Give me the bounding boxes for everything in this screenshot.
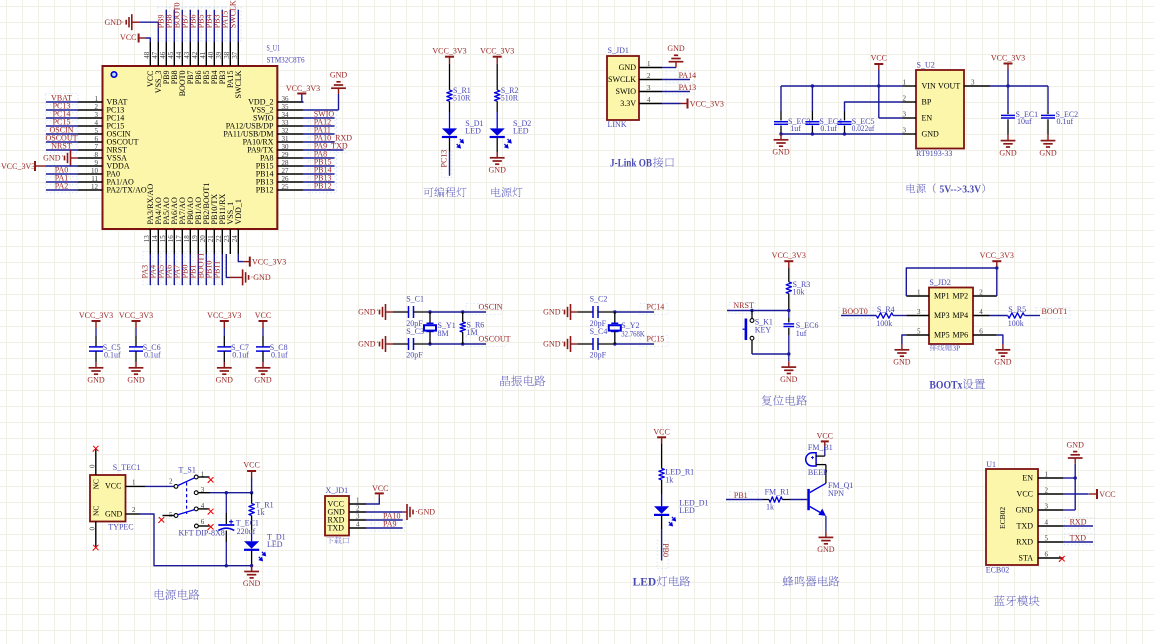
svg-text:·: · [561, 306, 564, 315]
no-connect X at T_S1 pin1 [208, 477, 214, 483]
wire MP1-MP2 loop to VCC_3V3 [906, 268, 997, 296]
wire net PC13 (pin 2) [46, 109, 78, 111]
power flag VCC above buzzer [817, 432, 833, 447]
power flag VCC_3V3 at S_JD1 pin4 [681, 99, 724, 109]
S_JD1 pin numbers [647, 60, 651, 104]
connector S_TEC1 value TYPEC [108, 523, 133, 532]
svg-text:1: 1 [132, 479, 136, 487]
junction S_R6 bottom [461, 342, 464, 345]
wire GND to S_C3 [393, 343, 408, 345]
wire S_R3 to NRST node [788, 294, 790, 311]
ground at S_U1 pin 8 VSSA [43, 150, 78, 166]
S_TEC1 pin1 stub [126, 479, 146, 487]
S_U1 right pin names [223, 97, 274, 194]
net label PB11 [212, 261, 221, 279]
S_TEC1 shell pin top [88, 450, 96, 476]
wire bottom node to GND [788, 354, 790, 361]
power flag VCC above T_R1 [243, 461, 259, 478]
capacitor S_C6 0.1uf [129, 328, 161, 362]
svg-text:VCC_3V3: VCC_3V3 [252, 257, 286, 266]
svg-text:S_C3: S_C3 [406, 327, 424, 336]
S_U1 left pin stubs [78, 102, 103, 190]
power flag VCC_3V3 above S_C6 [119, 311, 153, 328]
wire S_K1 to bottom node [752, 340, 789, 354]
wire T_S1 pin3 to VCC node [210, 492, 252, 494]
svg-text:VCC: VCC [372, 484, 388, 493]
wire net PA4 (pin 14) [157, 254, 159, 285]
svg-text:PB0: PB0 [661, 543, 670, 557]
net label PA10 [383, 511, 401, 520]
svg-text:S_JD2: S_JD2 [929, 278, 950, 287]
junction bottom rail / T_EC1 [225, 564, 228, 567]
wire net PB0 (pin 18) [189, 254, 191, 285]
svg-text:·: · [561, 338, 564, 347]
ground below MP5 [893, 344, 911, 367]
svg-text:LED: LED [513, 127, 529, 136]
svg-text:MP1: MP1 [934, 292, 950, 301]
svg-text:VCC: VCC [871, 54, 887, 63]
ground right of X_JD1 pin2 [403, 504, 436, 520]
svg-text:GND: GND [893, 358, 911, 367]
wire S_U1 pin 24 VDD_1 to VCC_3V3 [238, 254, 243, 262]
svg-text:·GND: ·GND [251, 273, 271, 282]
capacitor S_C7 0.1uf [217, 328, 249, 362]
net label PC14 [647, 303, 665, 312]
svg-text:S_C4: S_C4 [590, 327, 608, 336]
wire VCC_3V3 to S_R2 [496, 64, 498, 90]
svg-text:RXD: RXD [1016, 537, 1033, 546]
net label PA5 [156, 265, 165, 279]
net label BOOT0 [173, 3, 182, 29]
junction bottom node [787, 352, 790, 355]
svg-text:VCC: VCC [1017, 489, 1033, 498]
switch T_S1 pin6 [195, 518, 210, 528]
wire net PB11 (pin 22) [221, 254, 223, 285]
wire net PC15 (pin 4) [46, 125, 78, 127]
net label PA11 [314, 125, 331, 134]
wire net PA12 (pin 33) [303, 125, 334, 127]
svg-text:FM_R1: FM_R1 [765, 487, 790, 496]
svg-text:VCC: VCC [653, 427, 669, 436]
LED S_D2 [490, 119, 532, 149]
svg-text:·: · [376, 338, 379, 347]
ground below S_D2 [489, 152, 507, 175]
junction VIN/VCC [877, 84, 880, 87]
wire MP5 to GND [902, 335, 906, 344]
svg-text:2: 2 [132, 506, 136, 514]
wire net TXD [1063, 541, 1093, 543]
resistor S_R1 510R [447, 86, 471, 103]
switch T_S1 pole B (pins 5-4) [163, 502, 210, 519]
svg-text:VCC: VCC [255, 311, 271, 320]
net label PA14 [679, 71, 697, 80]
wire EN to VIN [879, 86, 903, 118]
ground at S_U1 pin 47 VSS_3 [104, 14, 139, 30]
module U1 designator [986, 460, 996, 469]
ground below S_EC1 [999, 135, 1017, 158]
svg-text:RT9193-33: RT9193-33 [916, 149, 952, 158]
capacitor S_C4 20pF [590, 327, 608, 360]
svg-text:GND: GND [994, 358, 1012, 367]
svg-text:0.1uf: 0.1uf [104, 350, 121, 359]
svg-text:EN: EN [922, 114, 933, 123]
svg-text:T_S1: T_S1 [179, 466, 196, 475]
svg-text:GND: GND [1016, 505, 1034, 514]
junction EN/GND net [1074, 476, 1077, 479]
connector S_JD1 body [607, 56, 639, 120]
junction VCC node [250, 491, 253, 494]
S_U2 pin names [922, 82, 961, 139]
ground above U1 [1067, 440, 1085, 464]
power flag VCC_3V3 above S_R3 [772, 251, 806, 268]
capacitor S_EC2 0.1uf [1041, 86, 1078, 135]
svg-text:VCC_3V3: VCC_3V3 [991, 53, 1025, 62]
wire FM_R1 to base [790, 499, 807, 501]
svg-text:GND: GND [489, 166, 507, 175]
svg-text:MP5: MP5 [934, 331, 950, 340]
wire to GND [251, 566, 253, 571]
wire net NRST (pin 7) [46, 149, 78, 151]
wire net PA10 [366, 519, 403, 521]
svg-text:S_R5: S_R5 [1008, 305, 1026, 314]
wire net BOOT0 (pin 44) [181, 10, 183, 42]
capacitor S_C8 0.1uf [256, 328, 288, 362]
wire VIN rail [781, 86, 903, 111]
net label NRST [51, 141, 72, 150]
net label BOOT1 [1042, 307, 1068, 316]
svg-text:PB1: PB1 [734, 491, 748, 500]
wire GND to S_C2 [578, 311, 593, 313]
net label PA3 [140, 265, 149, 279]
svg-text:ECB02: ECB02 [986, 566, 1010, 575]
svg-text:2: 2 [169, 478, 173, 486]
svg-text:VCC_3V3: VCC_3V3 [119, 311, 153, 320]
net label PA0 [55, 165, 69, 174]
junction S_R6 top [461, 310, 464, 313]
IC S_U1 STM32C8T6 body [103, 66, 278, 229]
ground below S_EC2 [1039, 135, 1057, 158]
junction bottom rail / T_D1 [250, 564, 253, 567]
wire net PA1 (pin 11) [46, 181, 78, 183]
svg-text:GND: GND [817, 545, 835, 554]
X_JD1 pin stubs [349, 504, 366, 528]
net label PA13 [679, 83, 697, 92]
wire VCC_3V3 to S_R3 [788, 268, 790, 282]
svg-text:SWIO: SWIO [616, 87, 637, 96]
capacitor S_EC6 1uf [784, 311, 819, 355]
wire net RXD [1063, 525, 1093, 527]
wire X_JD1 pin1 to VCC [366, 498, 379, 504]
title J-Link OB接口 [610, 157, 674, 169]
svg-text:GND: GND [780, 375, 798, 384]
ground left of S_C2 [543, 304, 578, 320]
net label OSCIN [49, 125, 73, 134]
net label PA9 [383, 519, 397, 528]
IC S_U2 value RT9193-33 [916, 149, 952, 158]
net label PA15 [221, 11, 230, 29]
svg-text:PB11: PB11 [212, 261, 221, 279]
svg-text:6: 6 [201, 518, 205, 526]
net label PB3 [213, 15, 222, 29]
svg-text:KFT DIP-8X8: KFT DIP-8X8 [179, 528, 225, 537]
svg-text:PA2: PA2 [55, 181, 69, 190]
net label PC14 [53, 109, 71, 118]
net label PA1 [55, 173, 69, 182]
net label PC13 [53, 101, 71, 110]
svg-text:VCC: VCC [120, 33, 136, 42]
wire net PA15 (pin 38) [229, 10, 231, 42]
LED S_D1 [442, 119, 484, 149]
ground below S_C8 [254, 362, 272, 385]
wire net PB5 (pin 41) [205, 10, 207, 42]
wire net OSCIN (pin 5) [46, 133, 78, 135]
header S_JD2 designator [929, 278, 950, 287]
power flag VCC_3V3 at S_U1 pin 9 VDDA [1, 161, 78, 171]
connector X_JD1 value 下载口 [327, 537, 349, 544]
wire net PB12 (pin 25) [303, 189, 334, 191]
svg-text:VCC: VCC [1099, 490, 1115, 499]
svg-text:0.1uf: 0.1uf [144, 350, 161, 359]
svg-text:MP2: MP2 [953, 292, 969, 301]
LED LED_D1 [654, 499, 709, 527]
wire net PB8 (pin 45) [173, 10, 175, 42]
svg-text:BEEP: BEEP [808, 468, 828, 477]
S_U1 left pin names [107, 97, 147, 194]
power flag VCC above LED_R1 [653, 427, 669, 443]
buzzer FM_B1 BEEP [806, 443, 833, 477]
wire net PB13 (pin 26) [303, 181, 334, 183]
power flag VCC_3V3 above S_C7 [207, 311, 241, 328]
svg-text:STA: STA [1019, 553, 1034, 562]
net label PB9 [157, 15, 166, 29]
junction S_Y1 top [428, 310, 431, 313]
svg-text:LED: LED [465, 127, 481, 136]
svg-text:VCC_3V3: VCC_3V3 [207, 311, 241, 320]
net label VBAT [51, 93, 72, 102]
svg-text:TXD: TXD [328, 523, 345, 532]
wire net PC14 (pin 3) [46, 117, 78, 119]
wire net PB14 (pin 27) [303, 173, 334, 175]
wire net SWIO (pin 34) [303, 117, 334, 119]
switch T_S1 designator [179, 466, 196, 475]
power flag VCC_3V3 at S_U1 pin 24 [243, 257, 286, 267]
wire net PA5 (pin 15) [165, 254, 167, 285]
svg-text:PB12: PB12 [256, 185, 274, 194]
wire S_C3 to OSCOUT rail [414, 343, 486, 345]
wire emitter to GND [825, 516, 827, 532]
svg-text:VCC_3V3: VCC_3V3 [480, 47, 514, 56]
svg-text:LED: LED [633, 577, 657, 589]
IC S_U1 designator [267, 44, 305, 65]
svg-text:1k: 1k [665, 475, 673, 484]
title 蓝牙模块 [994, 595, 1039, 606]
wire net PA7 (pin 17) [181, 254, 183, 285]
no-connect X at U1 STA [1059, 556, 1065, 562]
ground below S_C6 [127, 362, 145, 385]
svg-text:TXD: TXD [1017, 521, 1034, 530]
wire net PA14 [662, 79, 690, 81]
svg-text:OSCIN: OSCIN [479, 303, 503, 312]
svg-text:TYPEC: TYPEC [108, 523, 133, 532]
wire net NRST [727, 310, 789, 312]
title 可编程灯 [424, 187, 467, 197]
net label PB7 [181, 15, 190, 29]
header S_JD2 body [929, 288, 973, 345]
net label PB10 [204, 261, 213, 279]
net label SWCLK [229, 0, 238, 28]
junction GND/S_EC5 [843, 132, 846, 135]
net label PB1 [734, 491, 748, 500]
net label PB8 [165, 15, 174, 29]
module U1 value ECB02 [986, 566, 1010, 575]
svg-text:BOOT1: BOOT1 [1042, 307, 1068, 316]
LED T_D1 [244, 532, 286, 561]
svg-text:T_EC1: T_EC1 [236, 518, 259, 527]
net label RXD [1070, 517, 1087, 526]
switch T_S1 value KFT DIP-8X8 [179, 528, 225, 537]
net label highlight boxes [46, 7, 1095, 569]
svg-text:S_TEC1: S_TEC1 [113, 463, 141, 472]
svg-text:LED: LED [267, 540, 283, 549]
svg-text:GND: GND [104, 18, 122, 27]
svg-text:GND: GND [1039, 148, 1057, 157]
svg-text:·: · [376, 306, 379, 315]
net label PB13 [314, 173, 332, 182]
power flag VCC_3V3 above S_R1 [432, 47, 466, 64]
svg-text:0.1uf: 0.1uf [1057, 117, 1074, 126]
svg-text:VCC: VCC [243, 461, 259, 470]
svg-text:PA2/TX/AO: PA2/TX/AO [107, 185, 147, 194]
capacitor S_EC3 1uf [774, 111, 811, 134]
wire net PA0 (pin 10) [46, 173, 78, 175]
wire S_R2 to S_D2 [496, 101, 498, 128]
svg-text:8M: 8M [438, 329, 449, 338]
svg-text:GND: GND [254, 376, 272, 385]
net label PC13 [440, 150, 449, 168]
power flag VCC_3V3 above S_R2 [480, 47, 514, 64]
svg-text:LED: LED [679, 506, 695, 515]
svg-text:S_U1: S_U1 [267, 44, 281, 53]
net label PB6 [189, 15, 198, 29]
title 电源灯 [491, 187, 522, 197]
net label PC15 [647, 335, 665, 344]
svg-text:GND: GND [922, 130, 940, 139]
svg-text:VCC_3V3: VCC_3V3 [286, 84, 320, 93]
svg-text:GND: GND [1067, 440, 1085, 449]
svg-text:GND: GND [127, 376, 145, 385]
wire VCC_3V3 flag down [1007, 70, 1009, 87]
capacitor S_EC5 0.022uf [838, 111, 875, 134]
svg-text:EN: EN [1022, 473, 1033, 482]
net label PB15 [314, 157, 332, 166]
svg-text:3P: 3P [952, 343, 960, 352]
resistor T_R1 1k [249, 501, 274, 518]
ground below reset circuit [780, 361, 798, 384]
pushbutton S_K1 KEY [743, 318, 773, 340]
junction GND/S_EC4 [811, 132, 814, 135]
power flag VCC_3V3 above VOUT rail [991, 53, 1025, 69]
wire VCC to LED_R1 [661, 443, 663, 468]
junction S_Y2 bottom [613, 342, 616, 345]
title BOOTx设置 [929, 379, 984, 392]
wire net PB1 [726, 499, 763, 501]
S_U1 top pin stubs [150, 42, 238, 66]
svg-text:GND: GND [999, 148, 1017, 157]
svg-text:SWCLK: SWCLK [229, 0, 238, 28]
svg-text:OSCOUT: OSCOUT [479, 335, 511, 344]
svg-text:S_C2: S_C2 [590, 295, 608, 304]
svg-text:100k: 100k [876, 319, 892, 328]
wire VCC_3V3 to S_R1 [449, 64, 451, 90]
svg-text:S_U2: S_U2 [917, 61, 935, 70]
svg-text:S_JD1: S_JD1 [608, 46, 629, 55]
svg-text:S_C1: S_C1 [406, 295, 424, 304]
S_JD2 pin names [934, 292, 968, 340]
svg-text:GND: GND [358, 308, 376, 317]
svg-text:BOOTx: BOOTx [929, 379, 962, 391]
net label TXD [1070, 533, 1087, 542]
svg-text:0.1uf: 0.1uf [271, 350, 288, 359]
junction T_EC1 top [225, 491, 228, 494]
svg-text:PA9: PA9 [383, 519, 397, 528]
svg-text:1uf: 1uf [796, 329, 807, 338]
resistor S_R4 100k [876, 305, 906, 328]
wire MP6 to GND [997, 335, 1003, 344]
svg-text:LINK: LINK [608, 120, 627, 129]
resistor FM_R1 1k [763, 487, 790, 511]
connector S_JD1 designator [608, 46, 629, 55]
wire S_JD1 pin1 to GND [662, 67, 676, 69]
capacitor S_EC4 0.1uf [805, 111, 842, 134]
wire S_JD1 pin4 to VCC_3V3 [662, 103, 681, 105]
wire buzzer pin2 to collector [816, 465, 826, 484]
capacitor S_C3 20pF [406, 327, 424, 360]
switch T_S1 mechanical link (dashed) [186, 482, 188, 514]
U1 pin numbers [1045, 471, 1049, 559]
svg-text:BOOT0: BOOT0 [842, 307, 868, 316]
S_JD1 pin names [608, 63, 636, 108]
wire net PB1 (pin 19) [197, 254, 199, 285]
ground below S_C5 [87, 362, 105, 385]
net label PA8 [314, 149, 328, 158]
wire S_C4 to PC15 [598, 343, 654, 345]
title LED灯电路 [633, 576, 691, 589]
svg-text:0: 0 [88, 527, 96, 531]
svg-text:GND: GND [243, 579, 261, 588]
no-connect X at T_S1 pin6 [208, 524, 214, 530]
svg-text:5V-->3.3V: 5V-->3.3V [940, 184, 982, 195]
svg-text:0.1uf: 0.1uf [232, 350, 249, 359]
svg-text:NPN: NPN [828, 489, 844, 498]
wire net PB6 (pin 42) [197, 10, 199, 42]
net label PB0 [180, 265, 189, 279]
net label PB14 [314, 165, 332, 174]
svg-text:U1: U1 [986, 460, 996, 469]
S_U1 right pin numbers 36-25 [282, 95, 290, 191]
svg-text:GND: GND [772, 148, 790, 157]
svg-text:VCC_3V3: VCC_3V3 [432, 47, 466, 56]
capacitor S_C5 0.1uf [89, 328, 121, 362]
svg-text:PC14: PC14 [647, 303, 665, 312]
net label PA6 [164, 265, 173, 279]
S_U2 pin numbers [903, 79, 976, 135]
svg-text:1k: 1k [257, 508, 265, 517]
wire GND vertical to EN and GND pins [1063, 464, 1075, 510]
svg-text:PC15: PC15 [647, 335, 665, 344]
svg-text:VCC_3V3: VCC_3V3 [79, 311, 113, 320]
svg-text:NRST: NRST [51, 141, 72, 150]
wire net PA8 (pin 29) [303, 157, 334, 159]
